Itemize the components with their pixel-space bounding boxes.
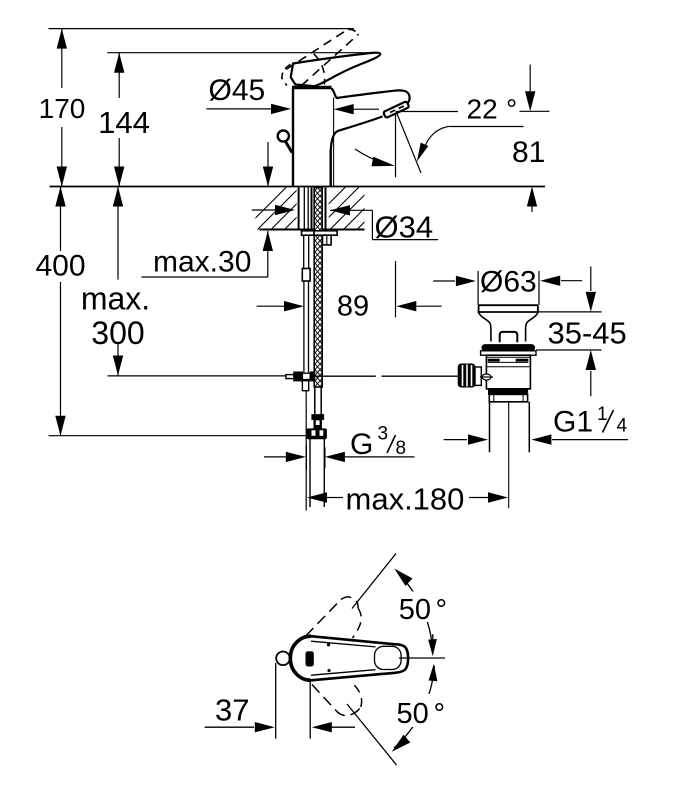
svg-text:89: 89 — [337, 291, 369, 323]
faucet lever solid — [291, 53, 381, 87]
dimension 144 line — [114, 53, 124, 187]
drain nut — [489, 390, 528, 402]
svg-text:4: 4 — [617, 416, 628, 437]
drain pivot screw — [480, 374, 493, 380]
50° arc upper — [394, 569, 437, 657]
max.30 upper arrow (counter thickness) — [263, 142, 273, 187]
max.300 bottom reference line — [108, 375, 286, 377]
rod guide below clamp — [302, 381, 308, 391]
handle dashed down position — [312, 681, 362, 716]
pop-up rod upper — [304, 235, 309, 268]
dimension G1 1/4 — [444, 404, 628, 445]
flexible hose lower — [315, 387, 321, 415]
mounting flange under counter — [302, 231, 338, 235]
reference line top (lever raised height 170) — [49, 28, 355, 30]
label Ø45 with leader arrow — [206, 74, 291, 114]
reference line (lever rest height 144) — [107, 52, 378, 54]
handle dots — [327, 643, 330, 646]
dimension 89 — [257, 291, 442, 323]
threaded rod knurled — [314, 188, 322, 388]
dimension max.300 line — [113, 187, 123, 376]
svg-text:°: ° — [434, 698, 446, 730]
drain flange top — [478, 305, 539, 312]
drain adjuster knob — [458, 364, 475, 387]
counter hatching left — [244, 187, 328, 230]
dimension 170 line — [57, 29, 67, 187]
hose nipple right — [323, 235, 332, 245]
drain flange taper — [479, 313, 538, 342]
50° ray lower — [347, 704, 397, 765]
svg-text:max.: max. — [81, 281, 150, 317]
svg-text:max.180: max.180 — [346, 481, 465, 516]
drain tailpipe — [490, 402, 530, 453]
400 bottom reference line — [49, 435, 308, 437]
faucet body right edge — [330, 150, 332, 187]
faucet body left edge — [292, 88, 294, 187]
svg-text:G1: G1 — [553, 406, 593, 439]
svg-text:Ø34: Ø34 — [375, 210, 434, 245]
pop-up rod tail — [305, 391, 307, 511]
svg-text:50: 50 — [399, 594, 431, 626]
linkage horizontal rod mid — [315, 375, 376, 377]
handle cartridge mark — [306, 651, 314, 666]
svg-text:°: ° — [436, 594, 448, 626]
drain body bottom edge — [486, 388, 530, 390]
hose neck — [314, 419, 322, 429]
spout aerator — [383, 101, 409, 118]
dimension G 3/8 — [264, 424, 415, 471]
pop-up knob top view — [276, 652, 290, 666]
drain centerline — [508, 402, 510, 508]
countertop line — [50, 186, 545, 188]
label Ø34 with leader — [252, 205, 438, 245]
faucet lever raised dashed bottom edge — [302, 34, 359, 85]
label max.30 with leader — [142, 231, 273, 279]
hose collar — [312, 415, 324, 420]
svg-text:400: 400 — [35, 250, 85, 283]
faucet lever dashed front arc — [314, 54, 325, 85]
handle top view outer outline — [290, 636, 408, 680]
faucet lever raised dashed top edge — [286, 29, 348, 69]
drain seal ring black band — [482, 345, 535, 351]
svg-text:G: G — [350, 428, 373, 461]
counter hatching right — [303, 187, 400, 230]
dimension 400 line — [55, 187, 65, 436]
dimension 81 line — [512, 65, 545, 213]
drain adjuster collar — [475, 367, 481, 385]
22° slanted line — [397, 113, 422, 174]
svg-text:max.30: max.30 — [153, 246, 251, 279]
pop-up knob stem — [286, 142, 293, 153]
svg-text:Ø45: Ø45 — [209, 74, 266, 107]
faucet body top band — [292, 86, 332, 90]
svg-text:22: 22 — [467, 93, 498, 124]
drain valve body top — [486, 355, 530, 389]
handle top view inner line — [311, 641, 376, 675]
linkage clamp — [286, 372, 315, 381]
89 / 22° vertical extension line (spout axis) — [395, 113, 397, 177]
22° leader arc right with arrow — [417, 126, 449, 161]
faucet lever raised dashed tip — [348, 29, 359, 34]
supply tube — [310, 439, 324, 507]
svg-text:1: 1 — [597, 404, 608, 425]
svg-text:81: 81 — [512, 136, 545, 169]
svg-text:50: 50 — [397, 698, 429, 730]
Ø45 right extension line — [333, 98, 335, 187]
50° arc lower — [392, 664, 438, 752]
svg-text:3: 3 — [378, 424, 389, 445]
dimension 35-45 — [536, 267, 627, 397]
svg-text:8: 8 — [396, 438, 407, 459]
50° ray upper — [352, 554, 396, 609]
Ø45 right arrow — [334, 104, 379, 114]
pop-up knob on body — [278, 130, 289, 141]
22° swivel arc left with arrow — [355, 149, 395, 166]
handle left end bold arc — [290, 636, 311, 680]
dimension max.180 — [307, 481, 508, 516]
drain plug knob — [500, 332, 518, 342]
svg-text:°: ° — [506, 93, 517, 124]
shank tube lines in counter hole — [299, 188, 326, 230]
svg-text:144: 144 — [98, 105, 150, 140]
linkage horizontal rod right — [382, 375, 459, 377]
svg-text:300: 300 — [91, 315, 144, 351]
label 50° lower — [394, 694, 452, 727]
pop-up rod block — [302, 269, 310, 282]
label 50° upper — [396, 592, 452, 623]
svg-text:35-45: 35-45 — [548, 316, 627, 351]
dimension 37 — [205, 663, 355, 739]
svg-text:Ø63: Ø63 — [480, 266, 537, 299]
G3/8 nut — [307, 429, 327, 439]
faucet lever raised dashed back — [282, 64, 291, 85]
svg-text:170: 170 — [39, 93, 86, 124]
drain flange ring — [481, 351, 536, 355]
svg-text:37: 37 — [215, 693, 249, 728]
countertop bottom line — [259, 229, 364, 231]
pop-up rod lower — [304, 281, 309, 372]
handle dashed up position — [306, 597, 361, 638]
handle centerline — [399, 657, 445, 659]
dimension Ø63 — [433, 266, 582, 306]
label 22° with underline — [396, 93, 550, 126]
faucet spout outline — [331, 89, 410, 151]
